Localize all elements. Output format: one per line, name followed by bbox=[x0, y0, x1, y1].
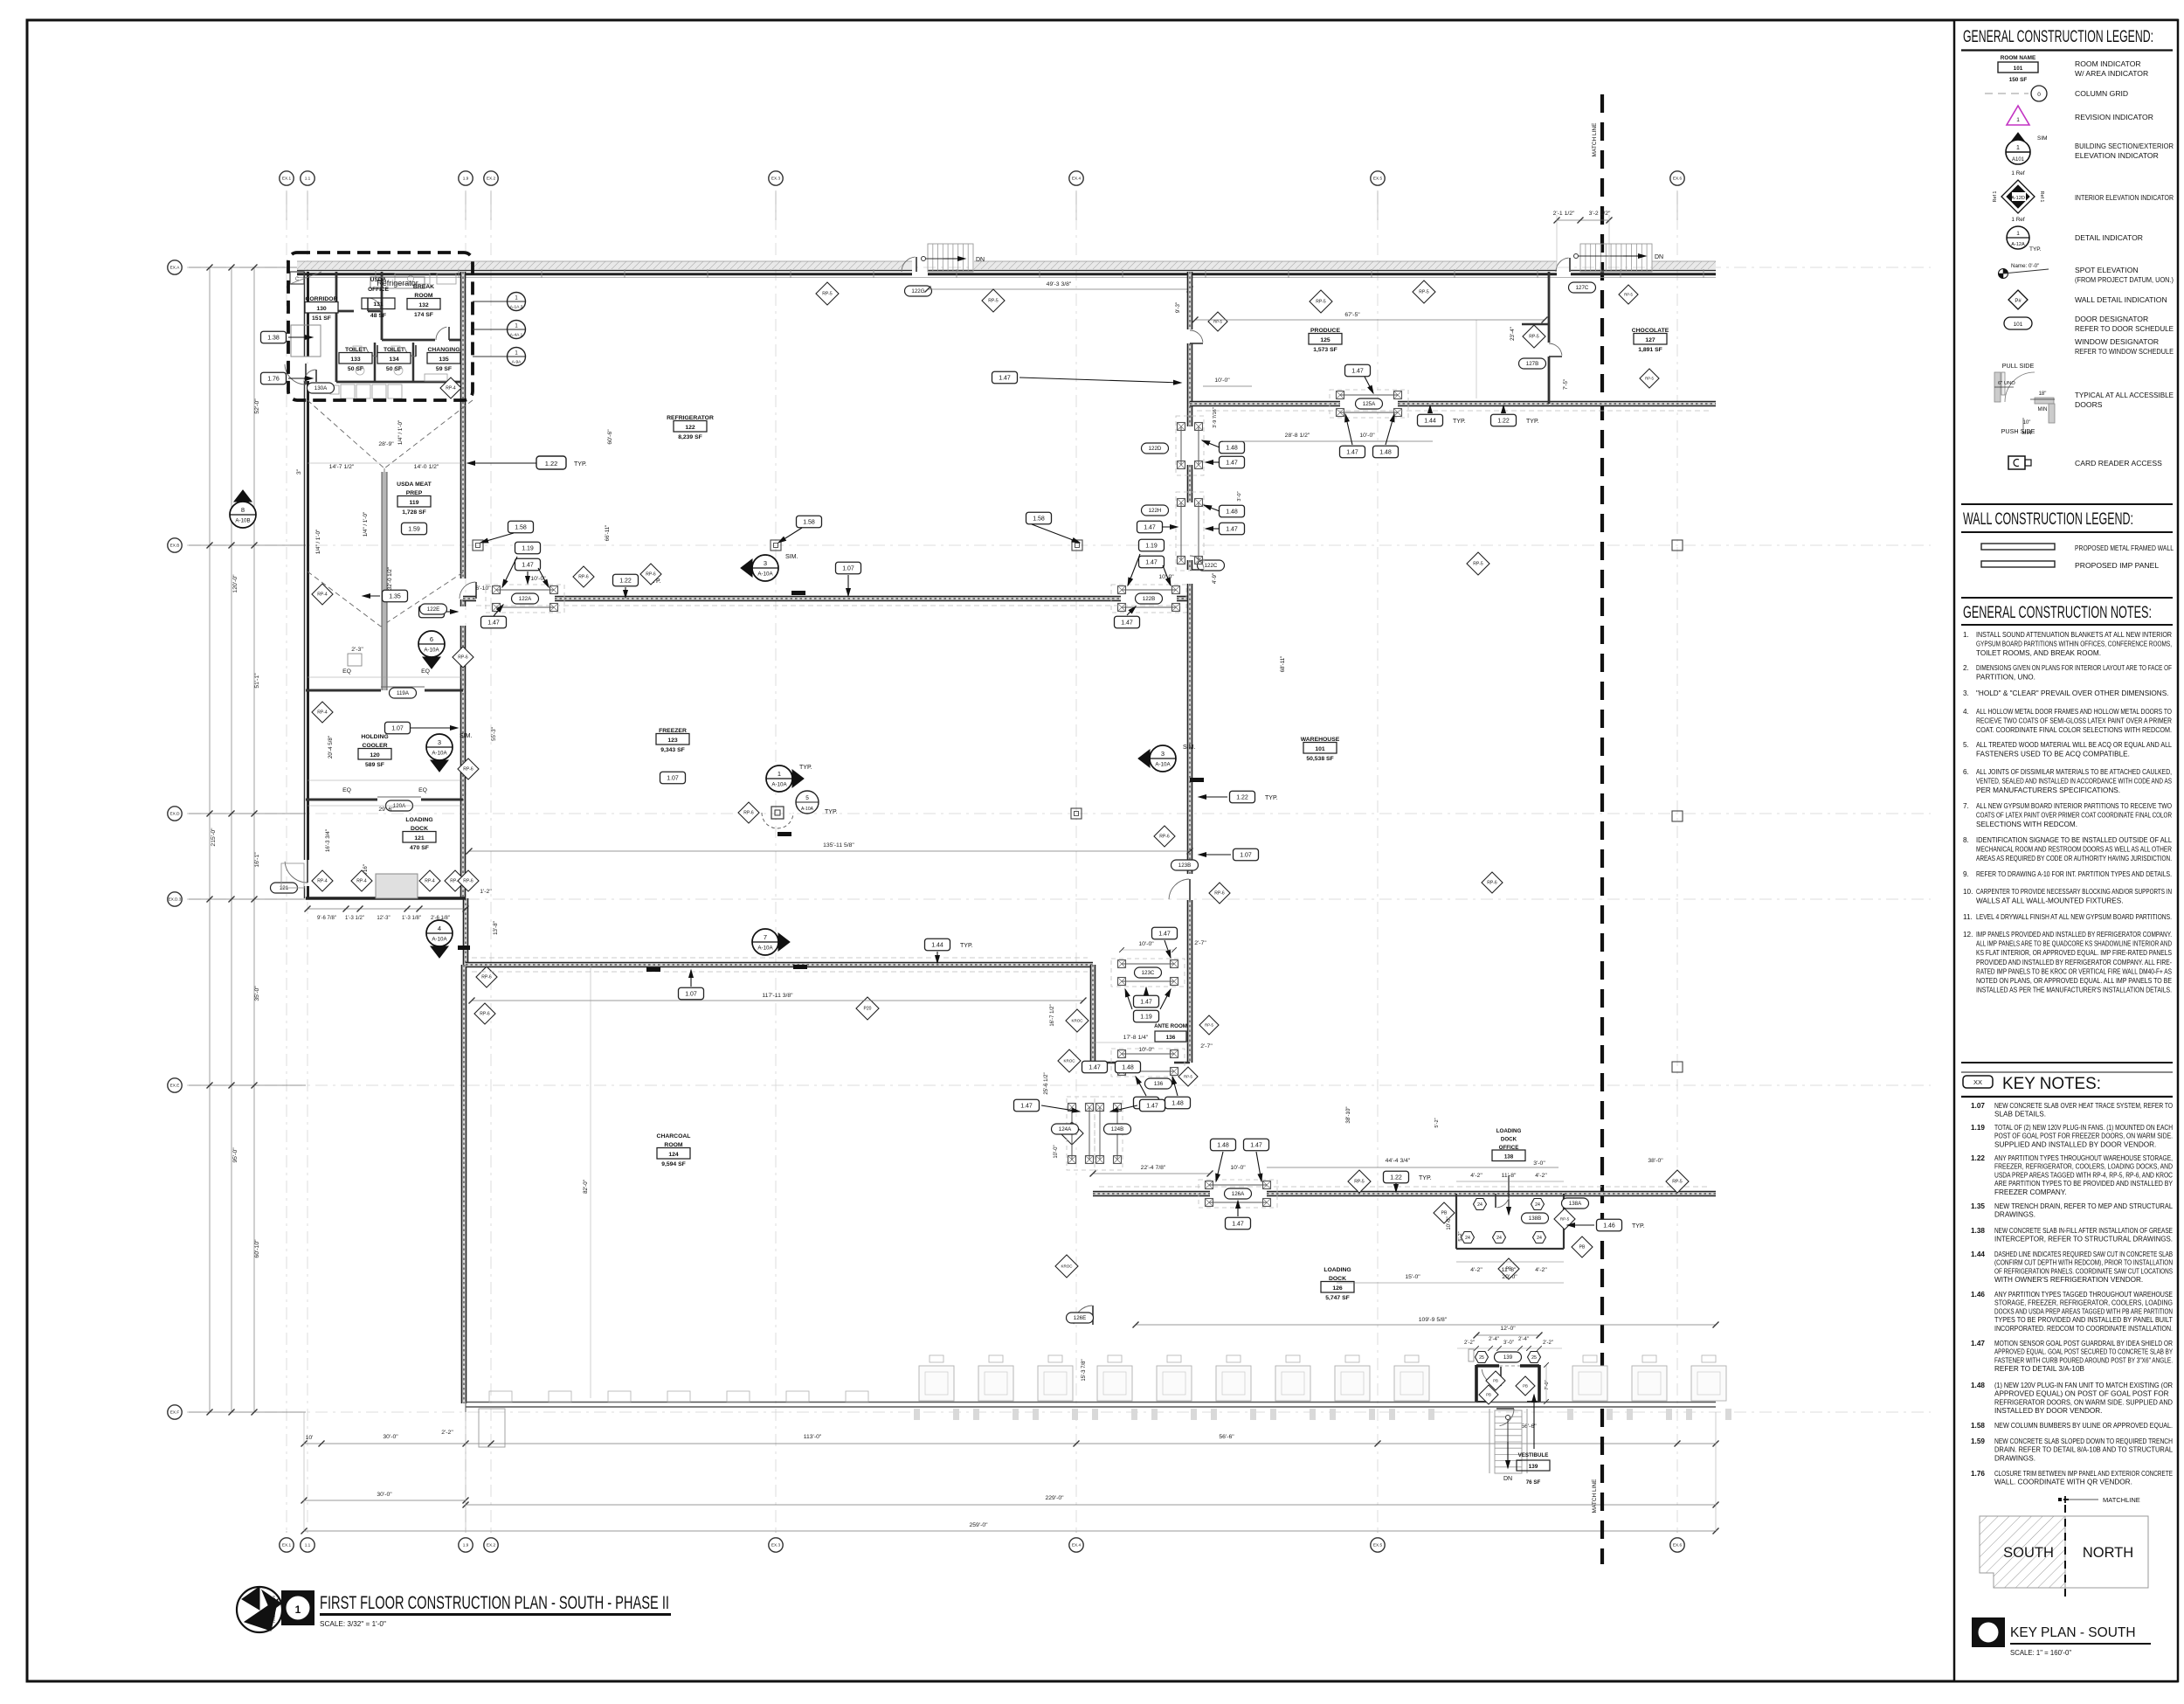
svg-text:2'-3": 2'-3" bbox=[351, 647, 363, 653]
svg-text:9,343 SF: 9,343 SF bbox=[660, 747, 685, 753]
svg-text:1.9: 1.9 bbox=[463, 177, 469, 181]
svg-text:1.35: 1.35 bbox=[389, 593, 401, 599]
svg-text:EX.2: EX.2 bbox=[487, 1543, 496, 1548]
svg-text:APPROVED EQUAL. GOAL POST SECU: APPROVED EQUAL. GOAL POST SECURED TO CON… bbox=[1994, 1348, 2173, 1356]
svg-text:82'-0": 82'-0" bbox=[583, 1180, 589, 1194]
svg-text:16'-3 3/4": 16'-3 3/4" bbox=[325, 829, 331, 852]
svg-text:10'-0": 10'-0" bbox=[530, 576, 546, 582]
svg-text:PROPOSED IMP PANEL: PROPOSED IMP PANEL bbox=[2075, 561, 2159, 570]
svg-text:EX.1: EX.1 bbox=[282, 177, 292, 181]
svg-text:3'-2 1/2": 3'-2 1/2" bbox=[1589, 211, 1611, 217]
svg-text:1 Ref: 1 Ref bbox=[2011, 170, 2024, 177]
svg-text:TOILET ROOMS, AND BREAK ROOM.: TOILET ROOMS, AND BREAK ROOM. bbox=[1976, 649, 2101, 657]
svg-text:3.: 3. bbox=[1963, 689, 1969, 697]
svg-text:PB: PB bbox=[1486, 1393, 1491, 1397]
svg-text:4'-2": 4'-2" bbox=[1535, 1173, 1547, 1179]
svg-text:RP-6: RP-6 bbox=[458, 655, 468, 661]
svg-text:1'-3 1/2": 1'-3 1/2" bbox=[345, 916, 364, 921]
svg-text:FASTENER WITH CURB POURED AROU: FASTENER WITH CURB POURED AROUND POST BY… bbox=[1994, 1356, 2173, 1364]
svg-text:FREEZER, REFRIGERATOR, COOLERS: FREEZER, REFRIGERATOR, COOLERS, LOADING … bbox=[1994, 1163, 2173, 1171]
svg-text:5,747 SF: 5,747 SF bbox=[1325, 1295, 1350, 1301]
svg-text:7: 7 bbox=[764, 933, 767, 941]
svg-text:MECHANICAL ROOM AND RESTROOM D: MECHANICAL ROOM AND RESTROOM DOORS AS WE… bbox=[1976, 846, 2172, 854]
svg-text:RP-5: RP-5 bbox=[1354, 1180, 1365, 1185]
svg-text:4'-9": 4'-9" bbox=[1212, 573, 1218, 584]
svg-text:14'-7 1/2": 14'-7 1/2" bbox=[329, 464, 355, 470]
svg-text:9'-6 7/8": 9'-6 7/8" bbox=[317, 916, 336, 921]
svg-text:7'-5": 7'-5" bbox=[1563, 379, 1569, 390]
svg-text:3'-0": 3'-0" bbox=[1533, 1160, 1545, 1167]
svg-text:PROPOSED METAL FRAMED WALL: PROPOSED METAL FRAMED WALL bbox=[2075, 544, 2174, 552]
svg-text:3: 3 bbox=[1161, 750, 1165, 758]
svg-text:124A: 124A bbox=[1059, 1126, 1072, 1133]
svg-text:1.44: 1.44 bbox=[931, 942, 943, 948]
svg-text:NOTED ON PLANS, OR APPROVED EQ: NOTED ON PLANS, OR APPROVED EQUAL. ALL I… bbox=[1976, 977, 2172, 985]
svg-text:EX.A: EX.A bbox=[170, 266, 181, 270]
svg-text:RP-5: RP-5 bbox=[1473, 562, 1483, 567]
svg-text:A-1A.3: A-1A.3 bbox=[510, 305, 523, 310]
svg-text:NEW TRENCH DRAIN, REFER TO MEP: NEW TRENCH DRAIN, REFER TO MEP AND STRUC… bbox=[1994, 1202, 2173, 1210]
svg-text:1.22: 1.22 bbox=[1971, 1154, 1985, 1162]
svg-text:122E: 122E bbox=[427, 606, 439, 613]
svg-text:MATCH LINE: MATCH LINE bbox=[1592, 1479, 1598, 1514]
svg-text:Name: 0'-0": Name: 0'-0" bbox=[2011, 263, 2039, 269]
svg-text:24: 24 bbox=[1477, 1202, 1482, 1208]
svg-text:8,239 SF: 8,239 SF bbox=[678, 434, 702, 440]
svg-text:DRAIN. REFER TO DETAIL 8/A-10B: DRAIN. REFER TO DETAIL 8/A-10B AND TO ST… bbox=[1994, 1446, 2173, 1454]
svg-text:1.47: 1.47 bbox=[1145, 559, 1158, 565]
svg-text:1'-3 1/8": 1'-3 1/8" bbox=[402, 916, 421, 921]
svg-text:52'-0": 52'-0" bbox=[254, 398, 260, 414]
svg-text:EQ: EQ bbox=[342, 668, 351, 675]
svg-text:8: 8 bbox=[241, 506, 245, 514]
svg-text:4.: 4. bbox=[1963, 708, 1969, 716]
svg-text:TYPES TO BE PROVIDED AND INSTA: TYPES TO BE PROVIDED AND INSTALLED BY PA… bbox=[1994, 1316, 2173, 1324]
svg-text:1.07: 1.07 bbox=[685, 991, 697, 997]
svg-text:133: 133 bbox=[350, 357, 361, 363]
svg-text:1.44: 1.44 bbox=[1424, 418, 1436, 424]
svg-text:COATS OF LATEX PAINT OVER PRIM: COATS OF LATEX PAINT OVER PRIMER COAT CO… bbox=[1976, 812, 2172, 820]
svg-text:EX.B: EX.B bbox=[170, 544, 180, 548]
svg-text:REVISION INDICATOR: REVISION INDICATOR bbox=[2075, 113, 2153, 121]
svg-text:RP-4: RP-4 bbox=[317, 710, 328, 716]
svg-text:INTERIOR ELEVATION INDICATOR: INTERIOR ELEVATION INDICATOR bbox=[2075, 193, 2174, 202]
svg-text:TYP.: TYP. bbox=[825, 809, 838, 815]
svg-text:3: 3 bbox=[764, 559, 767, 567]
svg-text:1.47: 1.47 bbox=[1250, 1142, 1262, 1148]
svg-text:67'-5": 67'-5" bbox=[1344, 312, 1360, 318]
svg-text:139: 139 bbox=[1503, 1354, 1513, 1361]
svg-text:122C: 122C bbox=[1205, 563, 1218, 569]
svg-text:RP-4: RP-4 bbox=[317, 592, 328, 598]
svg-text:Ref 1: Ref 1 bbox=[2039, 191, 2044, 203]
svg-text:1/4" / 1'-0": 1/4" / 1'-0" bbox=[397, 420, 404, 445]
svg-text:ROOM NAME: ROOM NAME bbox=[2001, 55, 2036, 61]
svg-text:TYP.: TYP. bbox=[799, 765, 812, 771]
svg-text:1,728 SF: 1,728 SF bbox=[402, 509, 426, 516]
svg-text:126A: 126A bbox=[1232, 1191, 1245, 1197]
svg-text:134: 134 bbox=[389, 357, 399, 363]
svg-text:A-10A: A-10A bbox=[771, 782, 787, 788]
svg-text:20'-0": 20'-0" bbox=[1502, 1274, 1517, 1280]
svg-text:10'-0": 10'-0" bbox=[1447, 1216, 1452, 1230]
svg-text:24: 24 bbox=[1535, 1202, 1540, 1208]
svg-text:MATCH LINE: MATCH LINE bbox=[1592, 122, 1598, 157]
svg-text:REFER TO DRAWING A-10 FOR INT.: REFER TO DRAWING A-10 FOR INT. PARTITION… bbox=[1976, 870, 2172, 878]
svg-text:1.47: 1.47 bbox=[1226, 526, 1238, 532]
svg-text:0: 0 bbox=[2037, 92, 2041, 98]
svg-text:MOTION SENSOR GOAL POST GUARDR: MOTION SENSOR GOAL POST GUARDRAIL BY IDE… bbox=[1994, 1340, 2173, 1347]
svg-text:125: 125 bbox=[1320, 337, 1330, 343]
svg-text:10'-0": 10'-0" bbox=[1054, 1145, 1059, 1158]
svg-text:50 SF: 50 SF bbox=[348, 366, 363, 372]
svg-text:130: 130 bbox=[316, 306, 327, 312]
svg-text:2.: 2. bbox=[1963, 664, 1969, 672]
svg-text:A101: A101 bbox=[2012, 157, 2025, 163]
svg-text:EX.3: EX.3 bbox=[771, 1543, 781, 1548]
svg-text:1.19: 1.19 bbox=[1140, 1014, 1152, 1020]
svg-text:KROC: KROC bbox=[1071, 1019, 1083, 1023]
svg-text:150 SF: 150 SF bbox=[2009, 77, 2028, 83]
svg-text:MIN: MIN bbox=[2022, 431, 2032, 436]
svg-text:DN: DN bbox=[1655, 254, 1663, 260]
svg-text:OF REFRIGERATION PANELS. COORD: OF REFRIGERATION PANELS. COORDINATE SAW … bbox=[1994, 1267, 2173, 1275]
svg-text:126E: 126E bbox=[1074, 1315, 1086, 1321]
svg-text:1.47: 1.47 bbox=[1971, 1340, 1985, 1347]
svg-text:TOTAL OF (2) NEW 120V PLUG-IN: TOTAL OF (2) NEW 120V PLUG-IN FANS. (1) … bbox=[1994, 1124, 2173, 1132]
svg-text:9.: 9. bbox=[1963, 870, 1969, 878]
svg-text:A-4A.1: A-4A.1 bbox=[510, 333, 523, 338]
svg-text:ALL IMP PANELS ARE TO BE QUADC: ALL IMP PANELS ARE TO BE QUADCORE KS SHA… bbox=[1976, 940, 2172, 948]
svg-text:CHARCOAL: CHARCOAL bbox=[657, 1133, 691, 1139]
svg-text:RP-5: RP-5 bbox=[988, 299, 999, 304]
svg-text:INTERCEPTOR, REFER TO STRUCTUR: INTERCEPTOR, REFER TO STRUCTURAL DRAWING… bbox=[1994, 1236, 2173, 1243]
svg-text:NEW CONCRETE SLAB SLOPED DOWN: NEW CONCRETE SLAB SLOPED DOWN TO REQUIRE… bbox=[1994, 1437, 2173, 1445]
svg-text:EX.4: EX.4 bbox=[1072, 177, 1082, 181]
svg-text:TYPICAL AT ALL ACCESSIBLE: TYPICAL AT ALL ACCESSIBLE bbox=[2075, 391, 2174, 399]
svg-text:470 SF: 470 SF bbox=[410, 845, 429, 851]
svg-text:1.58: 1.58 bbox=[1971, 1422, 1985, 1430]
svg-text:EX.6: EX.6 bbox=[1673, 1543, 1683, 1548]
svg-text:1,573 SF: 1,573 SF bbox=[1313, 347, 1337, 353]
svg-text:132: 132 bbox=[418, 302, 429, 308]
svg-text:32'-0 1/2": 32'-0 1/2" bbox=[387, 567, 393, 590]
svg-text:SPOT ELEVATION: SPOT ELEVATION bbox=[2075, 266, 2139, 274]
svg-text:RP-4: RP-4 bbox=[317, 879, 328, 884]
svg-text:PROVIDED AND INSTALLED BY REFR: PROVIDED AND INSTALLED BY REFRIGERATOR C… bbox=[1976, 959, 2172, 966]
svg-text:76 SF: 76 SF bbox=[1526, 1479, 1541, 1486]
svg-text:1: 1 bbox=[295, 1604, 301, 1616]
svg-text:120'-0": 120'-0" bbox=[232, 574, 238, 593]
svg-text:GYPSUM BOARD PARTITIONS WITHIN: GYPSUM BOARD PARTITIONS WITHIN OFFICES, … bbox=[1976, 641, 2172, 648]
svg-text:20'-4 5/8": 20'-4 5/8" bbox=[328, 736, 334, 758]
svg-text:PB: PB bbox=[1441, 1211, 1448, 1216]
svg-text:130A: 130A bbox=[314, 385, 328, 391]
svg-text:174 SF: 174 SF bbox=[414, 312, 433, 318]
svg-text:9'-3": 9'-3" bbox=[1175, 302, 1181, 313]
svg-text:SLAB DETAILS.: SLAB DETAILS. bbox=[1994, 1111, 2046, 1119]
svg-text:1: 1 bbox=[778, 770, 781, 778]
svg-text:AREAS AS REQUIRED BY CODE OR A: AREAS AS REQUIRED BY CODE OR AUTHORITY H… bbox=[1976, 855, 2172, 862]
svg-text:IDENTIFICATION SIGNAGE TO BE I: IDENTIFICATION SIGNAGE TO BE INSTALLED O… bbox=[1976, 836, 2172, 844]
svg-text:POST OF GOAL POST FOR FREEZER: POST OF GOAL POST FOR FREEZER DOORS, ON … bbox=[1994, 1133, 2173, 1140]
svg-text:10.: 10. bbox=[1963, 888, 1973, 896]
svg-text:Ref 1: Ref 1 bbox=[1993, 191, 1998, 203]
svg-text:11.: 11. bbox=[1963, 913, 1973, 921]
svg-text:1.38: 1.38 bbox=[267, 335, 280, 341]
svg-text:SIM.: SIM. bbox=[785, 554, 798, 560]
svg-text:RP-5: RP-5 bbox=[822, 292, 833, 297]
svg-text:125A: 125A bbox=[1363, 401, 1376, 407]
svg-text:66'-11": 66'-11" bbox=[605, 525, 611, 542]
svg-text:13'-8": 13'-8" bbox=[493, 921, 499, 935]
svg-text:NEW COLUMN BUMBERS BY ULINE OR: NEW COLUMN BUMBERS BY ULINE OR APPROVED … bbox=[1994, 1422, 2173, 1430]
svg-text:EX.5: EX.5 bbox=[1373, 1543, 1383, 1548]
svg-text:124B: 124B bbox=[1111, 1126, 1123, 1133]
svg-text:1.46: 1.46 bbox=[1603, 1223, 1615, 1229]
svg-text:RP-6: RP-6 bbox=[743, 811, 754, 816]
svg-text:10'-0": 10'-0" bbox=[1138, 941, 1154, 947]
svg-text:LEVEL 4 DRYWALL FINISH AT ALL: LEVEL 4 DRYWALL FINISH AT ALL NEW GYPSUM… bbox=[1976, 913, 2172, 921]
svg-text:1/4" / 1'-0": 1/4" / 1'-0" bbox=[315, 530, 321, 554]
svg-text:101: 101 bbox=[2014, 66, 2023, 72]
svg-text:WALL CONSTRUCTION LEGEND:: WALL CONSTRUCTION LEGEND: bbox=[1963, 510, 2133, 529]
svg-text:12'-0": 12'-0" bbox=[1500, 1326, 1516, 1332]
svg-text:CARPENTER TO PROVIDE NECESSARY: CARPENTER TO PROVIDE NECESSARY BLOCKING … bbox=[1976, 888, 2172, 896]
svg-text:REFER TO DETAIL 3/A-10B: REFER TO DETAIL 3/A-10B bbox=[1994, 1365, 2085, 1373]
svg-text:10'-0": 10'-0" bbox=[1359, 433, 1375, 439]
svg-text:4'-2": 4'-2" bbox=[1535, 1267, 1547, 1273]
svg-text:2'-7": 2'-7" bbox=[1200, 1043, 1213, 1049]
svg-text:119: 119 bbox=[410, 500, 419, 506]
svg-text:44'-4 3/4": 44'-4 3/4" bbox=[1386, 1158, 1411, 1164]
svg-text:15'-0": 15'-0" bbox=[1405, 1274, 1420, 1280]
svg-text:RP-5: RP-5 bbox=[1645, 377, 1654, 381]
svg-text:10": 10" bbox=[2023, 420, 2031, 426]
svg-text:120A: 120A bbox=[393, 803, 406, 809]
svg-text:RECIEVE TWO COATS OF SEMI-GLOS: RECIEVE TWO COATS OF SEMI-GLOSS LATEX PA… bbox=[1976, 717, 2172, 725]
svg-text:1.47: 1.47 bbox=[487, 620, 500, 626]
svg-text:50 SF: 50 SF bbox=[386, 366, 402, 372]
svg-text:WINDOW DESIGNATOR: WINDOW DESIGNATOR bbox=[2075, 337, 2159, 346]
svg-text:WALL DETAIL INDICATION: WALL DETAIL INDICATION bbox=[2075, 295, 2167, 304]
svg-text:101: 101 bbox=[1315, 746, 1325, 752]
svg-text:51'-1": 51'-1" bbox=[254, 673, 260, 689]
svg-text:A-10A: A-10A bbox=[757, 946, 773, 952]
svg-text:50,538 SF: 50,538 SF bbox=[1306, 756, 1333, 762]
svg-text:3'-0": 3'-0" bbox=[1237, 491, 1242, 501]
svg-text:IMP PANELS PROVIDED AND INSTAL: IMP PANELS PROVIDED AND INSTALLED BY REF… bbox=[1976, 931, 2172, 939]
svg-text:GENERAL CONSTRUCTION LEGEND:: GENERAL CONSTRUCTION LEGEND: bbox=[1963, 28, 2153, 46]
svg-text:126: 126 bbox=[1332, 1285, 1343, 1292]
svg-text:ANY PARTITION TYPES THROUGHOUT: ANY PARTITION TYPES THROUGHOUT WAREHOUSE… bbox=[1994, 1154, 2173, 1162]
svg-text:127: 127 bbox=[1645, 337, 1655, 343]
svg-text:24: 24 bbox=[1465, 1236, 1470, 1241]
svg-text:11'-8": 11'-8" bbox=[1502, 1267, 1517, 1273]
svg-text:A-10A: A-10A bbox=[801, 807, 814, 812]
svg-text:56'-6": 56'-6" bbox=[1521, 1423, 1537, 1430]
svg-text:1.07: 1.07 bbox=[1971, 1102, 1985, 1110]
svg-text:DASHED LINE INDICATES REQUIRED: DASHED LINE INDICATES REQUIRED SAW CUT I… bbox=[1994, 1250, 2173, 1258]
svg-text:(CONFIRM CUT DEPTH WITH REDCOM: (CONFIRM CUT DEPTH WITH REDCOM), PRIOR T… bbox=[1994, 1259, 2173, 1267]
svg-text:USDA MEAT: USDA MEAT bbox=[397, 481, 432, 488]
svg-text:123: 123 bbox=[667, 738, 678, 744]
svg-text:17'-8 1/4": 17'-8 1/4" bbox=[1123, 1035, 1149, 1041]
svg-text:12.: 12. bbox=[1963, 931, 1973, 939]
svg-text:A-9A: A-9A bbox=[512, 360, 522, 365]
svg-text:1.22: 1.22 bbox=[545, 460, 558, 468]
svg-text:11'-8": 11'-8" bbox=[1502, 1173, 1517, 1179]
svg-text:2'-4": 2'-4" bbox=[1518, 1337, 1529, 1342]
svg-text:1.19: 1.19 bbox=[1145, 543, 1158, 549]
svg-text:RP-4: RP-4 bbox=[446, 386, 456, 391]
svg-text:1.48: 1.48 bbox=[1217, 1142, 1229, 1148]
svg-text:135'-11 5/8": 135'-11 5/8" bbox=[823, 842, 854, 849]
svg-text:A-12A: A-12A bbox=[2011, 242, 2025, 247]
svg-text:1.48: 1.48 bbox=[1122, 1064, 1134, 1070]
svg-text:1.44: 1.44 bbox=[1971, 1250, 1985, 1258]
svg-text:A-12D: A-12D bbox=[2011, 196, 2025, 201]
svg-text:ALL HOLLOW METAL DOOR FRAMES A: ALL HOLLOW METAL DOOR FRAMES AND HOLLOW … bbox=[1976, 708, 2172, 716]
svg-text:95'-0": 95'-0" bbox=[232, 1147, 238, 1163]
svg-text:INCORPORATED. REDCOM TO COORDI: INCORPORATED. REDCOM TO COORDINATE INSTA… bbox=[1994, 1325, 2173, 1333]
svg-text:1.58: 1.58 bbox=[515, 524, 527, 530]
svg-text:121: 121 bbox=[280, 885, 289, 891]
svg-text:FREEZER COMPANY.: FREEZER COMPANY. bbox=[1994, 1188, 2067, 1196]
svg-text:DRAWINGS.: DRAWINGS. bbox=[1994, 1211, 2035, 1219]
svg-text:7'-0": 7'-0" bbox=[1545, 1380, 1550, 1389]
svg-text:STORAGE, FREEZER, REFRIGERATOR: STORAGE, FREEZER, REFRIGERATOR, COOLERS,… bbox=[1994, 1299, 2173, 1307]
svg-text:55'-3": 55'-3" bbox=[491, 727, 497, 741]
svg-text:127C: 127C bbox=[1576, 285, 1589, 291]
svg-text:EQ: EQ bbox=[342, 787, 351, 793]
svg-text:RP-6: RP-6 bbox=[1487, 881, 1497, 886]
svg-text:59 SF: 59 SF bbox=[436, 366, 452, 372]
svg-text:1.1: 1.1 bbox=[305, 1543, 311, 1548]
svg-text:KROC: KROC bbox=[1061, 1264, 1073, 1269]
svg-text:(1) NEW 120V PLUG-IN FAN UNIT: (1) NEW 120V PLUG-IN FAN UNIT TO MATCH E… bbox=[1994, 1382, 2173, 1389]
svg-text:6: 6 bbox=[430, 635, 433, 643]
svg-text:124: 124 bbox=[668, 1152, 679, 1158]
svg-text:ROOM INDICATOR: ROOM INDICATOR bbox=[2075, 59, 2141, 68]
svg-text:SUPPLIED AND INSTALLED BY DOOR: SUPPLIED AND INSTALLED BY DOOR VENDOR. bbox=[1994, 1140, 2156, 1148]
svg-text:FIRST FLOOR CONSTRUCTION PLAN: FIRST FLOOR CONSTRUCTION PLAN - SOUTH - … bbox=[320, 1592, 669, 1613]
svg-text:1.47: 1.47 bbox=[999, 375, 1011, 381]
svg-text:KS FLAT INTERIOR, OR APPROVED: KS FLAT INTERIOR, OR APPROVED EQUAL. IMP… bbox=[1976, 949, 2172, 957]
svg-text:FASTENERS USED TO BE ACQ COMPA: FASTENERS USED TO BE ACQ COMPATIBLE. bbox=[1976, 751, 2130, 758]
svg-text:139: 139 bbox=[1529, 1464, 1538, 1470]
svg-text:1: 1 bbox=[2016, 231, 2020, 237]
svg-text:122B: 122B bbox=[1143, 596, 1155, 602]
svg-text:38'-10": 38'-10" bbox=[1345, 1106, 1351, 1123]
svg-text:5.: 5. bbox=[1963, 741, 1969, 749]
svg-text:68'-11": 68'-11" bbox=[1280, 656, 1286, 673]
svg-text:29'-6": 29'-6" bbox=[378, 807, 394, 813]
svg-text:151 SF: 151 SF bbox=[312, 315, 331, 322]
svg-text:15'-3 7/8": 15'-3 7/8" bbox=[1082, 1359, 1087, 1381]
svg-text:REFRIGERATOR DOORS, ON WARM SI: REFRIGERATOR DOORS, ON WARM SIDE. SUPPLI… bbox=[1994, 1398, 2173, 1406]
svg-text:1'-2": 1'-2" bbox=[480, 889, 492, 895]
svg-text:127B: 127B bbox=[1526, 361, 1538, 367]
svg-text:ALL TREATED WOOD MATERIAL WILL: ALL TREATED WOOD MATERIAL WILL BE ACQ OR… bbox=[1976, 741, 2172, 749]
svg-text:1.22: 1.22 bbox=[619, 578, 632, 584]
svg-text:RP-5: RP-5 bbox=[1184, 1075, 1192, 1079]
svg-text:117'-11 3/8": 117'-11 3/8" bbox=[762, 993, 793, 999]
svg-text:1.22: 1.22 bbox=[1497, 418, 1510, 424]
svg-text:1.47: 1.47 bbox=[1346, 449, 1358, 455]
svg-text:1.47: 1.47 bbox=[522, 562, 534, 568]
svg-text:30'-0": 30'-0" bbox=[383, 1434, 398, 1440]
svg-text:TYP.: TYP. bbox=[1632, 1223, 1645, 1230]
svg-text:1.19: 1.19 bbox=[522, 545, 534, 551]
svg-text:LOADING: LOADING bbox=[1496, 1128, 1522, 1134]
svg-text:PARTITION, UNO.: PARTITION, UNO. bbox=[1976, 674, 2035, 682]
svg-text:1.22: 1.22 bbox=[1236, 794, 1248, 800]
svg-text:KROC: KROC bbox=[1063, 1059, 1075, 1063]
svg-text:A-10A: A-10A bbox=[432, 751, 447, 757]
svg-text:2'-1 1/2": 2'-1 1/2" bbox=[1553, 211, 1575, 217]
svg-text:2'-2": 2'-2" bbox=[1543, 1340, 1553, 1346]
svg-text:1.47: 1.47 bbox=[1146, 1103, 1158, 1109]
svg-text:18": 18" bbox=[2039, 391, 2047, 397]
svg-text:1.59: 1.59 bbox=[408, 526, 420, 532]
svg-text:OFFICE: OFFICE bbox=[368, 287, 389, 293]
svg-text:5'-2": 5'-2" bbox=[1458, 1231, 1463, 1241]
svg-text:KEY NOTES:: KEY NOTES: bbox=[2002, 1075, 2101, 1093]
svg-text:122: 122 bbox=[685, 425, 695, 431]
svg-text:ARE PARTITION TYPES TO BE PROV: ARE PARTITION TYPES TO BE PROVIDED AND I… bbox=[1994, 1180, 2173, 1188]
svg-text:BREAK: BREAK bbox=[413, 284, 434, 290]
svg-text:38'-0": 38'-0" bbox=[1648, 1158, 1663, 1164]
svg-text:1.07: 1.07 bbox=[1240, 852, 1252, 858]
svg-text:EX.5: EX.5 bbox=[1373, 177, 1383, 181]
svg-text:1.9: 1.9 bbox=[463, 1543, 469, 1548]
svg-text:123C: 123C bbox=[1142, 970, 1155, 976]
svg-text:SOUTH: SOUTH bbox=[2003, 1545, 2054, 1561]
svg-text:PER MANUFACTURERS SPECIFICATIO: PER MANUFACTURERS SPECIFICATIONS. bbox=[1976, 786, 2120, 794]
svg-text:24: 24 bbox=[1537, 1236, 1542, 1241]
svg-text:RP-5: RP-5 bbox=[1672, 1180, 1683, 1185]
svg-text:1.58: 1.58 bbox=[803, 519, 815, 525]
svg-text:EX.D.3: EX.D.3 bbox=[169, 897, 182, 902]
svg-text:56'-6": 56'-6" bbox=[1219, 1434, 1234, 1440]
svg-text:INSTALLED BY DOOR VENDOR.: INSTALLED BY DOOR VENDOR. bbox=[1994, 1407, 2102, 1415]
svg-text:12'-3": 12'-3" bbox=[377, 916, 390, 921]
svg-text:3: 3 bbox=[438, 738, 441, 746]
svg-text:"HOLD" & "CLEAR" PREVAIL OVER: "HOLD" & "CLEAR" PREVAIL OVER OTHER DIME… bbox=[1976, 689, 2168, 697]
svg-text:RP-6: RP-6 bbox=[481, 975, 492, 980]
svg-text:1.47: 1.47 bbox=[1140, 999, 1152, 1005]
svg-text:RP-6: RP-6 bbox=[463, 879, 473, 884]
svg-text:6" UNO: 6" UNO bbox=[1998, 381, 2015, 386]
svg-text:109'-9 5/8": 109'-9 5/8" bbox=[1419, 1317, 1448, 1323]
svg-text:1.46: 1.46 bbox=[1971, 1291, 1985, 1299]
svg-text:3'-0": 3'-0" bbox=[1503, 1340, 1514, 1346]
svg-text:USDA PREP AREAS TAGGED WITH RP: USDA PREP AREAS TAGGED WITH RP-4, RP-5, … bbox=[1994, 1171, 2173, 1179]
svg-text:1.59: 1.59 bbox=[1971, 1437, 1985, 1445]
svg-text:PB: PB bbox=[1523, 1384, 1528, 1389]
svg-text:1.58: 1.58 bbox=[1033, 516, 1045, 522]
svg-text:9,594 SF: 9,594 SF bbox=[661, 1161, 686, 1167]
svg-text:RP-4: RP-4 bbox=[425, 879, 435, 884]
svg-text:RP-5: RP-5 bbox=[1560, 1217, 1570, 1222]
svg-text:EX.E: EX.E bbox=[170, 1084, 180, 1088]
svg-text:1.07: 1.07 bbox=[391, 725, 404, 731]
svg-text:1.48: 1.48 bbox=[1971, 1382, 1985, 1389]
svg-text:RP-6: RP-6 bbox=[1214, 891, 1225, 897]
svg-text:1.35: 1.35 bbox=[1971, 1202, 1985, 1210]
svg-text:1.1: 1.1 bbox=[305, 177, 311, 181]
